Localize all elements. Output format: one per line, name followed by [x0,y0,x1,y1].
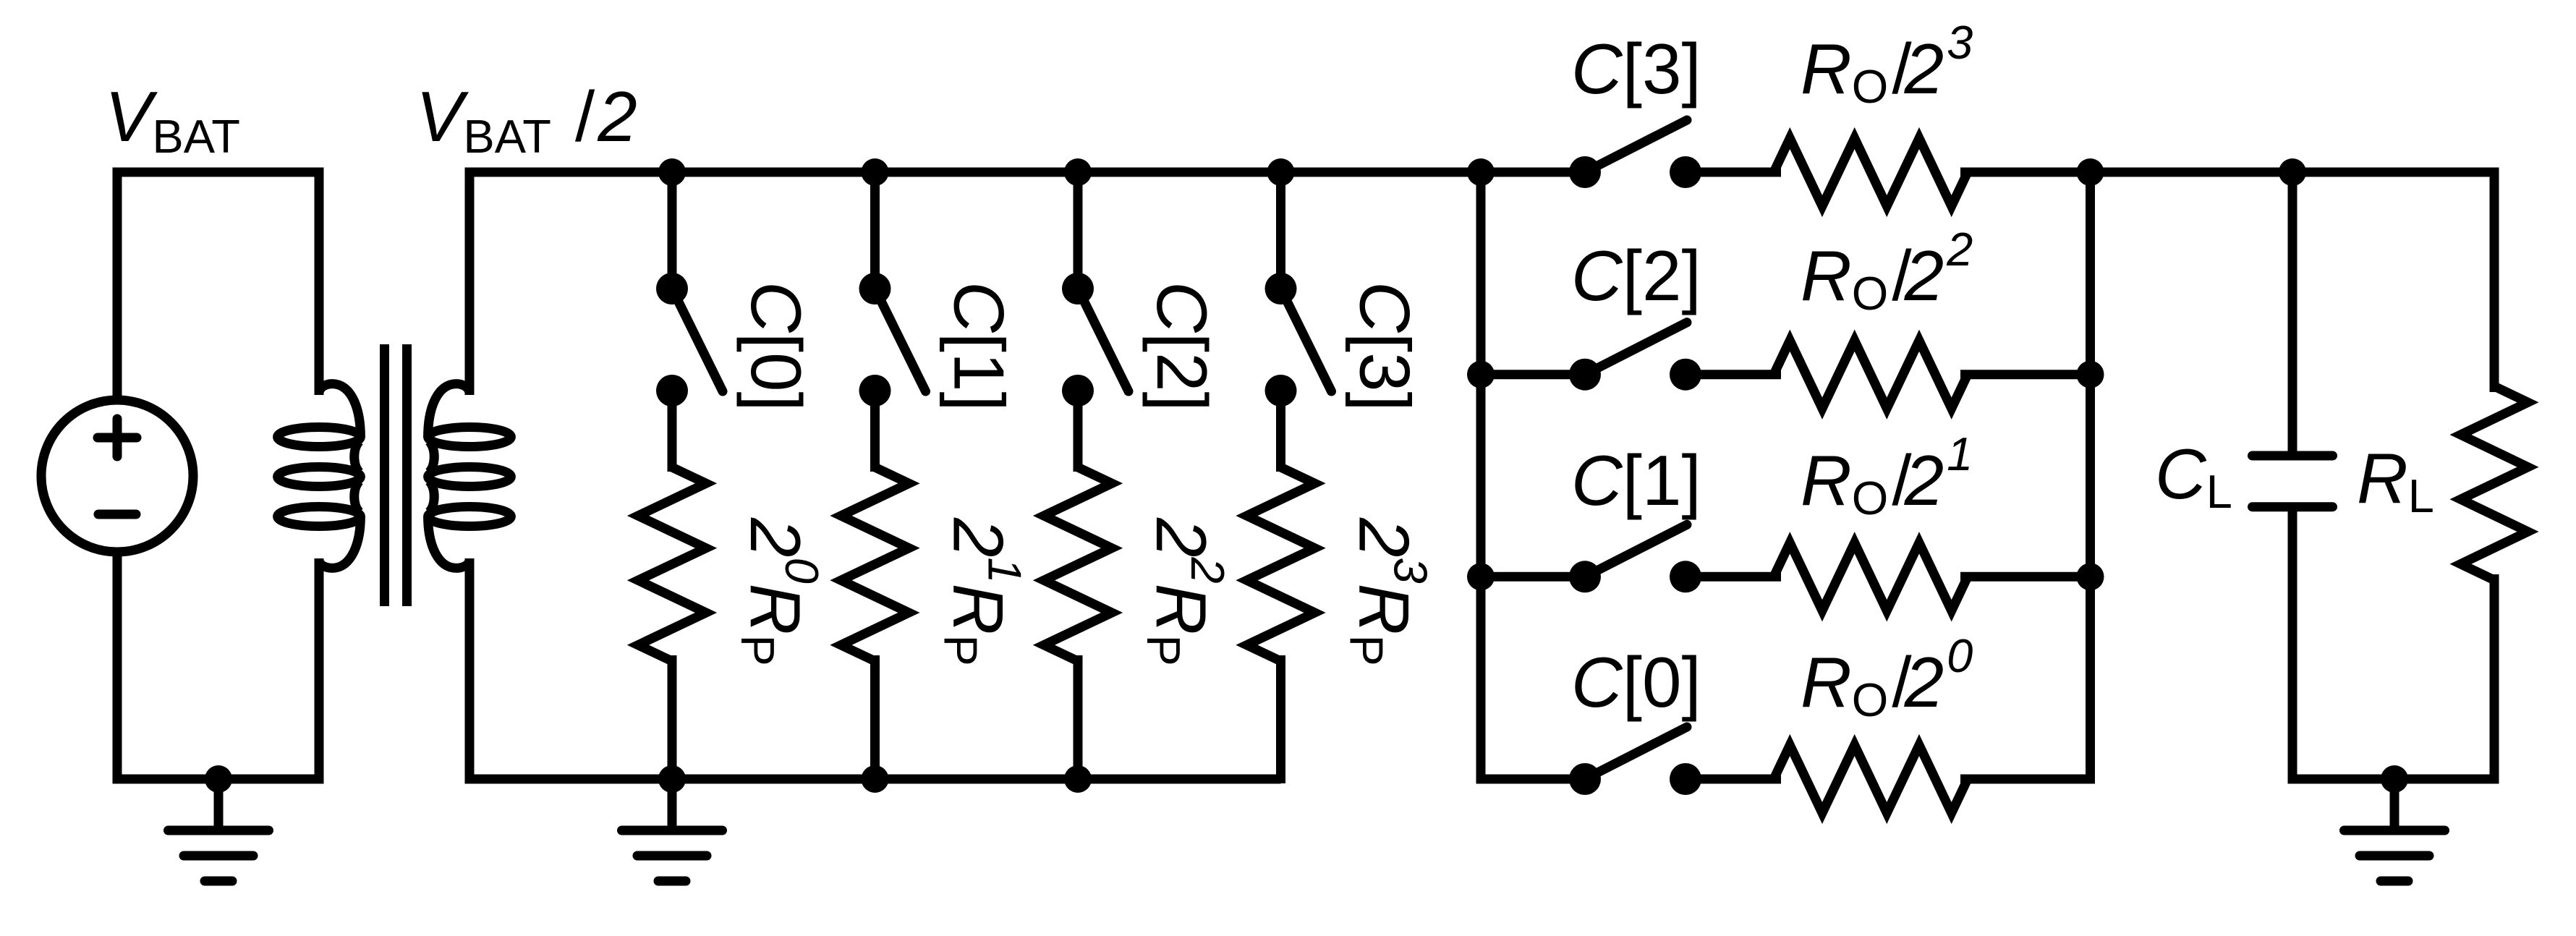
ground secondary [622,779,723,881]
wire resistor R_O/2^3 to right bus [1960,168,2091,177]
switch C[0] right terminal [1670,763,1701,795]
inductor L1 primary loop 3 [278,507,361,527]
svg-text:C[0]: C[0] [736,281,816,412]
switch C[1] left terminal [1569,561,1601,592]
wire V_BAT top rail [117,172,319,402]
switch C[2] bottom terminal [1062,375,1094,407]
node bottom rail junction branch 0 [658,765,686,793]
svg-text:RO/21: RO/21 [1801,427,1973,524]
inductor L2 secondary loop 2 [428,467,511,487]
switch C[1] right terminal [1670,561,1701,592]
svg-text:C[2]: C[2] [1142,281,1222,412]
wire resistor R_O/2^2 to right bus [1960,370,2091,379]
wire load bottom rail [2288,775,2499,784]
wire branch 1 upper [870,172,880,289]
svg-text:C[3]: C[3] [1571,29,1701,109]
node primary ground junction [205,765,232,793]
wire secondary top lead [465,168,475,396]
ground load [2345,779,2445,881]
switch C[1] blade [1585,524,1687,577]
inductor L2 secondary loop 3 [428,507,511,527]
switch C[3] right terminal [1670,156,1701,188]
node bottom rail junction branch 1 [862,765,889,793]
svg-text:C[1]: C[1] [1571,441,1701,520]
inductor L2 secondary bottom hook [428,516,469,568]
svg-text:VBAT: VBAT [105,77,240,163]
switch C[1] top terminal [859,273,891,305]
inductor L1 primary neck 1 [354,441,360,472]
wire right bus [1960,172,2091,779]
switch C[2] top terminal [1062,273,1094,305]
wire left bus [1481,172,1585,779]
resistor R_O/2^3 [1774,138,1968,206]
inductor L2 secondary neck 2 [429,481,434,512]
wire C[0] to resistor [1686,775,1781,784]
node top rail junction branch 0 [658,158,686,186]
inductor L1 primary loop 1 [278,427,361,447]
wire branch 2 upper [1074,172,1083,289]
wire primary bottom rail [113,775,324,784]
svg-text:C[0]: C[0] [1571,642,1701,722]
resistor 2^2R_P [1044,467,1112,661]
wire branch 2 middle [1074,391,1083,472]
resistor R_O/2^0 [1774,745,1968,813]
svg-text:RL: RL [2357,438,2434,522]
capacitor C_L bottom plate [2253,502,2333,511]
node bottom rail junction branch 2 [1064,765,1092,793]
node left bus junction C[2] [1467,361,1495,388]
voltage source plus sign [98,419,137,456]
switch C[3] blade [1585,120,1687,172]
resistor R_L [2461,386,2528,580]
wire output top rail [2086,168,2499,177]
switch C[2] blade [1078,289,1128,391]
node right bus junction C[3] [2077,158,2104,186]
ground primary [169,779,269,881]
node right bus junction C[2] [2077,361,2104,388]
switch C[0] left terminal [1569,763,1601,795]
svg-text:21RP: 21RP [935,517,1032,666]
transformer core line 2 [402,344,412,606]
wire V1 bottom to rail [113,552,122,783]
svg-text:C[3]: C[3] [1346,281,1425,412]
wire VBAT/2 top rail [465,168,1586,177]
resistor 2^1R_P [841,467,909,661]
svg-text:22RP: 22RP [1137,517,1234,666]
svg-text:C[2]: C[2] [1571,236,1701,315]
transformer core line 1 [380,344,389,606]
wire C_L lower lead [2288,507,2297,779]
svg-text:23RP: 23RP [1340,517,1437,666]
wire branch 0 upper [668,172,677,289]
switch C[2] left terminal [1569,359,1601,391]
node left bus junction C[3] [1467,158,1495,186]
wire branch 3 upper [1276,172,1285,289]
node left bus junction C[1] [1467,563,1495,590]
switch C[2] right terminal [1670,359,1701,391]
inductor L2 secondary neck 1 [429,441,434,472]
capacitor C_L top plate [2253,451,2333,461]
wire branch 3 lower [1276,655,1285,783]
resistor 2^3R_P [1247,467,1315,661]
node load ground junction [2381,765,2408,793]
switch C[0] top terminal [656,273,688,305]
node secondary ground junction [658,765,686,793]
wire primary coil bottom lead [315,558,324,779]
node right bus junction C[1] [2077,563,2104,590]
switch C[3] bottom terminal [1265,375,1297,407]
switch C[3] top terminal [1265,273,1297,305]
svg-text:RO/23: RO/23 [1801,16,1973,113]
wire R_L lower lead [2490,574,2499,779]
svg-text:C[1]: C[1] [940,281,1019,412]
node top rail junction branch 1 [862,158,889,186]
node capacitor C_L top junction [2279,158,2306,186]
wire C[3] to resistor [1686,168,1781,177]
inductor L2 secondary loop 1 [428,427,511,447]
inductor L1 primary loop 2 [278,467,361,487]
switch C[0] bottom terminal [656,375,688,407]
switch C[0] blade [672,289,723,391]
switch C[1] bottom terminal [859,375,891,407]
voltage source V1 circle [41,400,193,552]
wire left stub C[2] [1481,370,1585,379]
resistor R_O/2^1 [1774,543,1968,610]
wire resistor R_O/2^1 to right bus [1960,572,2091,582]
switch C[2] blade [1585,323,1687,375]
svg-text:VBAT/2: VBAT/2 [416,77,637,163]
inductor L1 primary neck 2 [354,481,360,512]
wire C[2] to resistor [1686,370,1781,379]
switch C[3] blade [1281,289,1332,391]
switch C[0] blade [1585,727,1687,779]
wire R_P bank bottom rail [465,775,1281,784]
voltage source minus sign [98,510,136,519]
wire left stub C[1] [1481,572,1585,582]
inductor L2 secondary top hook [428,384,469,437]
wire branch 1 lower [870,655,880,783]
wire branch 1 middle [870,391,880,472]
wire C_L upper lead [2288,172,2297,453]
switch C[3] left terminal [1569,156,1601,188]
svg-text:RO/22: RO/22 [1801,223,1973,320]
resistor 2^0R_P [638,467,706,661]
wire branch 3 middle [1276,391,1285,472]
inductor L1 primary bottom hook [319,516,360,568]
wire branch 2 lower [1074,655,1083,783]
wire branch 0 lower [668,655,677,783]
wire C[1] to resistor [1686,572,1781,582]
svg-text:20RP: 20RP [731,517,828,666]
resistor R_O/2^2 [1774,341,1968,409]
wire branch 0 middle [668,391,677,472]
node top rail junction branch 2 [1064,158,1092,186]
node top rail junction branch 3 [1267,158,1295,186]
wire secondary bottom lead [465,558,475,783]
wire R_L upper lead [2490,172,2499,392]
svg-text:CL: CL [2155,434,2232,518]
switch C[1] blade [875,289,926,391]
svg-text:RO/20: RO/20 [1801,629,1973,726]
inductor L1 primary top hook [319,384,360,437]
